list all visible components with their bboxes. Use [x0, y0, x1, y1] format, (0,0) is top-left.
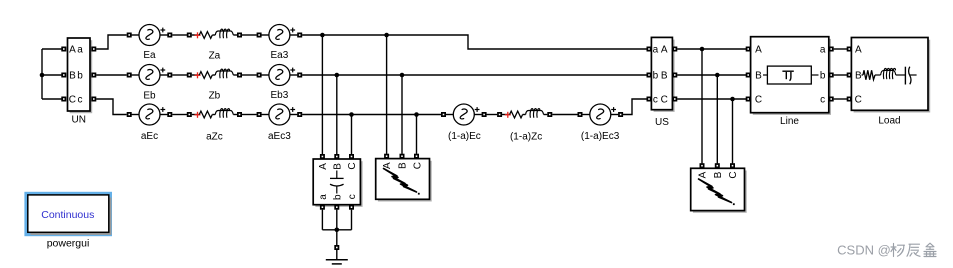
- svg-text:A: A: [698, 171, 709, 178]
- svg-text:c: c: [820, 95, 825, 106]
- svg-text:CSDN @: CSDN @: [837, 243, 891, 258]
- svg-text:aEc3: aEc3: [268, 131, 291, 142]
- svg-text:A: A: [318, 163, 329, 170]
- svg-text:c: c: [347, 194, 358, 199]
- svg-text:Eb: Eb: [143, 90, 156, 101]
- svg-text:C: C: [412, 162, 423, 169]
- svg-text:aZc: aZc: [206, 131, 223, 142]
- svg-text:c: c: [78, 95, 83, 106]
- svg-text:Line: Line: [780, 116, 799, 127]
- svg-text:a: a: [318, 194, 329, 200]
- svg-text:B: B: [661, 71, 668, 82]
- svg-text:US: US: [655, 117, 669, 128]
- svg-text:A: A: [661, 45, 668, 56]
- svg-text:(1-a)Ec: (1-a)Ec: [448, 131, 481, 142]
- svg-text:b: b: [820, 71, 826, 82]
- svg-text:Load: Load: [878, 116, 900, 127]
- svg-text:A: A: [755, 45, 762, 56]
- svg-text:b: b: [653, 71, 659, 82]
- svg-text:aEc: aEc: [141, 131, 158, 142]
- svg-text:powergui: powergui: [47, 237, 90, 249]
- svg-text:c: c: [653, 95, 658, 106]
- svg-text:B: B: [755, 71, 762, 82]
- svg-text:Eb3: Eb3: [271, 90, 289, 101]
- svg-text:Ea3: Ea3: [271, 50, 289, 61]
- svg-text:C: C: [855, 95, 862, 106]
- svg-text:A: A: [69, 45, 76, 56]
- svg-text:a: a: [820, 45, 826, 56]
- svg-text:Continuous: Continuous: [41, 209, 94, 221]
- svg-text:A: A: [855, 45, 862, 56]
- svg-text:C: C: [347, 162, 358, 169]
- svg-text:B: B: [332, 163, 343, 170]
- svg-text:a: a: [77, 45, 83, 56]
- svg-text:Ea: Ea: [143, 50, 156, 61]
- svg-text:C: C: [755, 95, 762, 106]
- svg-text:B: B: [713, 171, 724, 178]
- svg-text:Zb: Zb: [209, 91, 221, 102]
- svg-text:Za: Za: [209, 51, 221, 62]
- svg-text:B: B: [855, 71, 862, 82]
- svg-text:(1-a)Ec3: (1-a)Ec3: [581, 131, 620, 142]
- svg-text:C: C: [661, 95, 668, 106]
- svg-text:b: b: [77, 71, 83, 82]
- svg-text:(1-a)Zc: (1-a)Zc: [510, 131, 542, 142]
- svg-text:a: a: [653, 45, 659, 56]
- svg-text:B: B: [69, 71, 76, 82]
- svg-text:C: C: [69, 95, 76, 106]
- svg-text:b: b: [332, 194, 343, 200]
- svg-text:C: C: [728, 171, 739, 178]
- svg-text:UN: UN: [71, 115, 85, 126]
- svg-text:B: B: [397, 162, 408, 169]
